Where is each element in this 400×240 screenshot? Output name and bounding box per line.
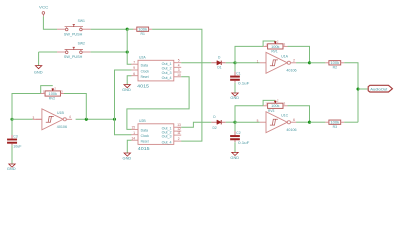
svg-text:3: 3 xyxy=(178,68,180,72)
svg-text:AudioOut: AudioOut xyxy=(370,87,387,91)
svg-text:R2: R2 xyxy=(333,65,337,69)
svg-text:D: D xyxy=(213,115,216,119)
wire R2 to mix node xyxy=(344,63,358,122)
svg-text:1: 1 xyxy=(133,131,135,135)
svg-text:U2A: U2A xyxy=(139,55,146,59)
svg-text:D1: D1 xyxy=(217,66,221,70)
IC U2A 4015 shift register xyxy=(138,60,174,81)
svg-text:GND: GND xyxy=(230,96,239,100)
svg-text:3: 3 xyxy=(61,89,63,93)
wire RV3 wiper tee xyxy=(263,100,275,105)
svg-text:Out_4: Out_4 xyxy=(162,140,172,144)
wire RV1 to U1A output xyxy=(288,46,310,62)
ground GND at C1 xyxy=(232,93,238,96)
svg-text:6: 6 xyxy=(293,118,295,122)
node B junction (U1C input) xyxy=(233,121,236,124)
diode D1 xyxy=(211,62,217,64)
node junction SW1/bus xyxy=(126,28,129,31)
svg-text:9: 9 xyxy=(133,66,135,70)
svg-text:1: 1 xyxy=(257,59,259,63)
svg-text:Data: Data xyxy=(141,64,149,68)
node A junction (U1A input) xyxy=(233,61,236,64)
wire VCC to SW1 xyxy=(43,16,57,29)
node junction U1A output xyxy=(308,61,311,64)
wire D1 to node A xyxy=(226,62,235,64)
wire U2A Out_4 to U2B Data xyxy=(127,77,189,130)
svg-text:GND: GND xyxy=(34,71,43,75)
net flag AudioOut xyxy=(368,85,392,92)
svg-text:Reset: Reset xyxy=(141,140,149,144)
svg-text:GND: GND xyxy=(230,156,239,160)
svg-text:SW_PUSH: SW_PUSH xyxy=(64,55,83,59)
svg-text:4015: 4015 xyxy=(137,84,149,89)
wire RV1 wiper tee xyxy=(263,41,275,46)
svg-text:C1: C1 xyxy=(236,71,240,75)
svg-text:11: 11 xyxy=(177,131,181,135)
capacitor C1 xyxy=(234,63,236,72)
node mix junction xyxy=(356,87,359,90)
wire RV2 wiper tee xyxy=(41,86,53,94)
switch SW1 xyxy=(65,28,68,31)
ground GND at U2B Reset xyxy=(127,140,131,153)
trimmer RV2 xyxy=(45,91,60,96)
svg-text:U2B: U2B xyxy=(139,119,146,123)
svg-text:Reset: Reset xyxy=(141,75,149,79)
node junction U1C output xyxy=(308,121,311,124)
op-amp U1C (40106 Schmitt inverter) xyxy=(266,112,287,133)
svg-text:VCC: VCC xyxy=(39,6,49,10)
trimmer RV1 xyxy=(268,44,283,49)
svg-text:14: 14 xyxy=(131,136,135,140)
svg-text:2: 2 xyxy=(178,137,180,141)
svg-text:R3: R3 xyxy=(333,125,337,129)
node junction SW2/bus xyxy=(126,50,129,53)
wire RV3 to U1C output xyxy=(288,106,310,122)
svg-text:2: 2 xyxy=(293,59,295,63)
svg-text:100k: 100k xyxy=(49,92,58,96)
wire node A to trimmer RV1 xyxy=(235,46,263,62)
ground GND at U2A Reset xyxy=(127,76,131,85)
svg-text:SW2: SW2 xyxy=(78,42,85,46)
node junction U1B input xyxy=(10,118,13,121)
svg-text:5: 5 xyxy=(178,59,180,63)
svg-text:2: 2 xyxy=(277,39,279,43)
ground GND at SW2 xyxy=(38,52,40,65)
svg-text:4: 4 xyxy=(178,63,180,67)
node junction at U1B output xyxy=(85,118,88,121)
wire C3 to ground xyxy=(11,145,13,164)
svg-text:RV2: RV2 xyxy=(49,97,56,101)
svg-text:GND: GND xyxy=(7,167,16,171)
wire RV2 to U1B output xyxy=(64,94,86,120)
svg-text:10uF: 10uF xyxy=(13,144,22,149)
wire mix node to AudioOut xyxy=(358,88,368,90)
switch SW2 xyxy=(65,51,68,54)
trimmer RV3 xyxy=(268,103,283,108)
svg-text:2: 2 xyxy=(277,99,279,103)
svg-text:U1C: U1C xyxy=(281,114,288,118)
wire node A to U1A input xyxy=(235,62,260,64)
svg-text:1: 1 xyxy=(265,42,267,46)
svg-text:10: 10 xyxy=(177,73,181,77)
svg-text:D2: D2 xyxy=(212,126,216,130)
svg-text:GND: GND xyxy=(123,157,132,161)
wire U2A Out_1 to D1 xyxy=(181,62,211,64)
resistor R1 xyxy=(127,28,133,30)
svg-text:40106: 40106 xyxy=(57,124,68,129)
svg-text:6: 6 xyxy=(133,72,135,76)
capacitor C3 xyxy=(11,119,13,135)
svg-text:Clock: Clock xyxy=(141,134,150,138)
svg-text:3: 3 xyxy=(284,102,286,106)
wire C2 to ground xyxy=(234,142,236,152)
wire R1 to U2B Out_4 (pin 2) xyxy=(152,29,202,141)
svg-text:Out_3: Out_3 xyxy=(162,71,172,75)
svg-text:GND: GND xyxy=(122,88,131,92)
node junction clock bus xyxy=(113,118,116,121)
svg-text:R1: R1 xyxy=(141,32,145,36)
wire U1C output to junction xyxy=(296,121,309,123)
svg-text:Out_1: Out_1 xyxy=(162,62,172,66)
wire SW2 to bus xyxy=(91,51,128,53)
svg-text:RV1: RV1 xyxy=(271,50,278,54)
svg-text:C2: C2 xyxy=(236,131,240,135)
op-amp U1A (40106 Schmitt inverter) xyxy=(266,52,287,73)
svg-text:4015: 4015 xyxy=(138,146,150,151)
svg-text:40106: 40106 xyxy=(286,68,297,73)
resistor R2 xyxy=(310,62,326,64)
resistor R3 xyxy=(310,121,326,123)
svg-text:100k: 100k xyxy=(271,104,280,108)
svg-text:3: 3 xyxy=(284,42,286,46)
svg-text:U1A: U1A xyxy=(281,54,288,58)
svg-text:SW1: SW1 xyxy=(78,19,85,23)
wire clock bus to U2A Clock xyxy=(115,70,132,119)
wire GND to SW2 xyxy=(39,51,57,53)
wire node B to U1C input xyxy=(235,121,260,123)
svg-text:1: 1 xyxy=(265,102,267,106)
svg-text:Out_4: Out_4 xyxy=(162,76,172,80)
wire C1 to ground xyxy=(234,83,236,93)
wire R3 to mix node xyxy=(344,121,358,123)
svg-text:C3: C3 xyxy=(13,134,17,138)
svg-text:RV3: RV3 xyxy=(268,109,275,113)
svg-text:40106: 40106 xyxy=(286,127,297,132)
wire input node to U1B xyxy=(12,118,33,120)
wire U1A output to junction xyxy=(296,62,309,64)
svg-text:SW_PUSH: SW_PUSH xyxy=(64,32,83,36)
svg-text:Clock: Clock xyxy=(141,69,150,73)
wire SW1 to bus xyxy=(91,28,128,30)
svg-text:100k: 100k xyxy=(271,45,280,49)
svg-text:Data: Data xyxy=(141,129,149,133)
svg-text:Out_3: Out_3 xyxy=(162,134,172,138)
svg-text:Out_2: Out_2 xyxy=(162,67,172,71)
wire U1B output to clock bus xyxy=(76,118,115,120)
capacitor C2 xyxy=(234,122,236,131)
svg-text:3: 3 xyxy=(33,116,35,120)
svg-text:2: 2 xyxy=(54,86,56,90)
svg-text:15: 15 xyxy=(131,126,135,130)
svg-text:5: 5 xyxy=(257,119,259,123)
op-amp U1B (40106 Schmitt inverter) xyxy=(42,109,63,130)
wire D2 to node B xyxy=(226,121,235,123)
wire clock bus to U2B Clock xyxy=(115,119,132,134)
IC U2B 4015 shift register xyxy=(138,124,174,145)
ground GND at C2 xyxy=(232,152,238,155)
ground GND at C3 xyxy=(9,164,15,167)
svg-text:U1B: U1B xyxy=(57,111,64,115)
wire node B to trimmer RV3 xyxy=(235,106,263,122)
diode D2 xyxy=(211,121,217,123)
svg-text:0.1uF: 0.1uF xyxy=(238,140,250,145)
wire input node to trimmer RV2 xyxy=(12,94,41,120)
svg-text:1: 1 xyxy=(43,89,45,93)
svg-text:D: D xyxy=(218,56,221,60)
wire bus to U2A Data xyxy=(127,29,131,64)
svg-text:4: 4 xyxy=(69,115,71,119)
svg-text:7: 7 xyxy=(133,60,135,64)
wire U2B Out_1 to D2 xyxy=(181,122,211,127)
svg-text:0.1uF: 0.1uF xyxy=(238,81,250,86)
